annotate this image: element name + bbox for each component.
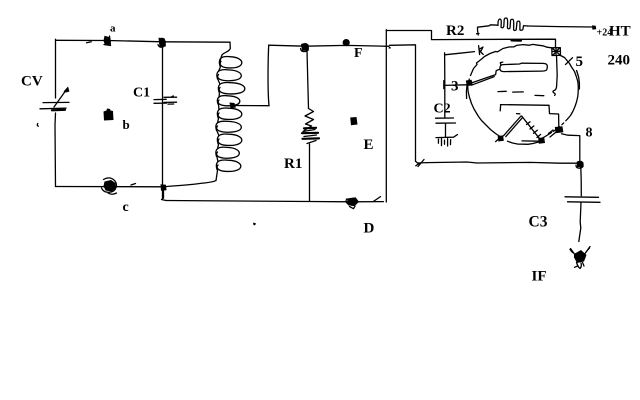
wire tall vertical (F rail) <box>385 30 387 202</box>
resistor R2 <box>446 18 592 39</box>
node a <box>104 23 117 46</box>
label 5 <box>566 54 584 70</box>
tick near rail end <box>374 197 381 202</box>
node E <box>350 117 373 153</box>
coil tap junction <box>230 103 237 109</box>
junction C1 bottom <box>161 184 167 191</box>
svg-text:R1: R1 <box>284 156 302 172</box>
valve heater pin left <box>496 135 504 141</box>
svg-text:C1: C1 <box>133 86 150 101</box>
wire left vertical lower <box>54 113 57 187</box>
ground <box>436 135 458 146</box>
wire bottom rail 2 (to D) <box>166 201 384 202</box>
valve pin5 top-cap box <box>552 48 561 56</box>
valve anode plate <box>500 62 547 72</box>
svg-text:C3: C3 <box>529 214 548 231</box>
wire top-left horizontal a <box>56 40 231 43</box>
wire C1 bottom to bottom rail <box>162 191 167 201</box>
valve cathode <box>500 105 559 127</box>
svg-text:3: 3 <box>451 79 459 95</box>
capacitor C2 <box>434 53 456 137</box>
capacitor C3 <box>529 167 601 242</box>
small dot near F rail <box>389 47 391 49</box>
wire tap vertical <box>267 45 270 105</box>
valve grid dashes <box>498 91 544 95</box>
wire top elbow to HT rail <box>386 31 555 48</box>
capacitor CV <box>21 74 70 127</box>
svg-text:8: 8 <box>586 126 593 141</box>
wire long bottom horizontal to C3 <box>427 162 578 163</box>
node b <box>104 109 130 133</box>
IF output arrow <box>532 247 591 285</box>
svg-text:IF: IF <box>532 269 547 285</box>
resistor R1 <box>284 51 319 201</box>
wire C2 to grid cap <box>445 46 484 55</box>
svg-text:CV: CV <box>21 74 43 90</box>
valve pin 8 <box>549 126 593 141</box>
wire coil tap <box>233 105 269 107</box>
valve pin3 internal connection <box>471 69 500 85</box>
svg-text:R2: R2 <box>446 23 464 39</box>
node c junction blob <box>102 178 136 215</box>
wire left vertical upper <box>55 39 57 98</box>
valve anode lead <box>553 56 557 96</box>
svg-text:E: E <box>364 137 374 153</box>
svg-text:b: b <box>123 117 130 132</box>
capacitor C1 <box>133 42 177 198</box>
inductor L (coil) <box>166 42 245 186</box>
svg-text:5: 5 <box>576 54 584 70</box>
HT terminal <box>592 24 631 40</box>
valve heater pin right <box>522 137 545 143</box>
valve heater filament <box>504 114 544 141</box>
svg-text:a: a <box>110 23 116 35</box>
junction C1 top <box>158 38 166 47</box>
svg-text:D: D <box>364 221 375 237</box>
svg-text:HT: HT <box>609 24 631 40</box>
junction C3 top <box>576 161 584 168</box>
valve pin 3 <box>444 79 473 95</box>
valve envelope U1 <box>466 44 579 144</box>
wire bottom-left horizontal <box>56 186 163 188</box>
stray speck <box>253 223 256 226</box>
wire pin8 to C3 <box>562 134 580 161</box>
junction R1 top <box>301 44 309 52</box>
svg-text:240: 240 <box>608 53 631 69</box>
svg-text:C2: C2 <box>434 102 451 117</box>
node D blob <box>346 197 375 236</box>
wire y45 branch to output rail <box>390 45 416 161</box>
wire F horizontal <box>269 45 389 46</box>
svg-text:F: F <box>354 46 363 61</box>
svg-text:c: c <box>123 200 129 215</box>
node F <box>343 39 363 61</box>
corner arrow tick <box>416 160 428 167</box>
